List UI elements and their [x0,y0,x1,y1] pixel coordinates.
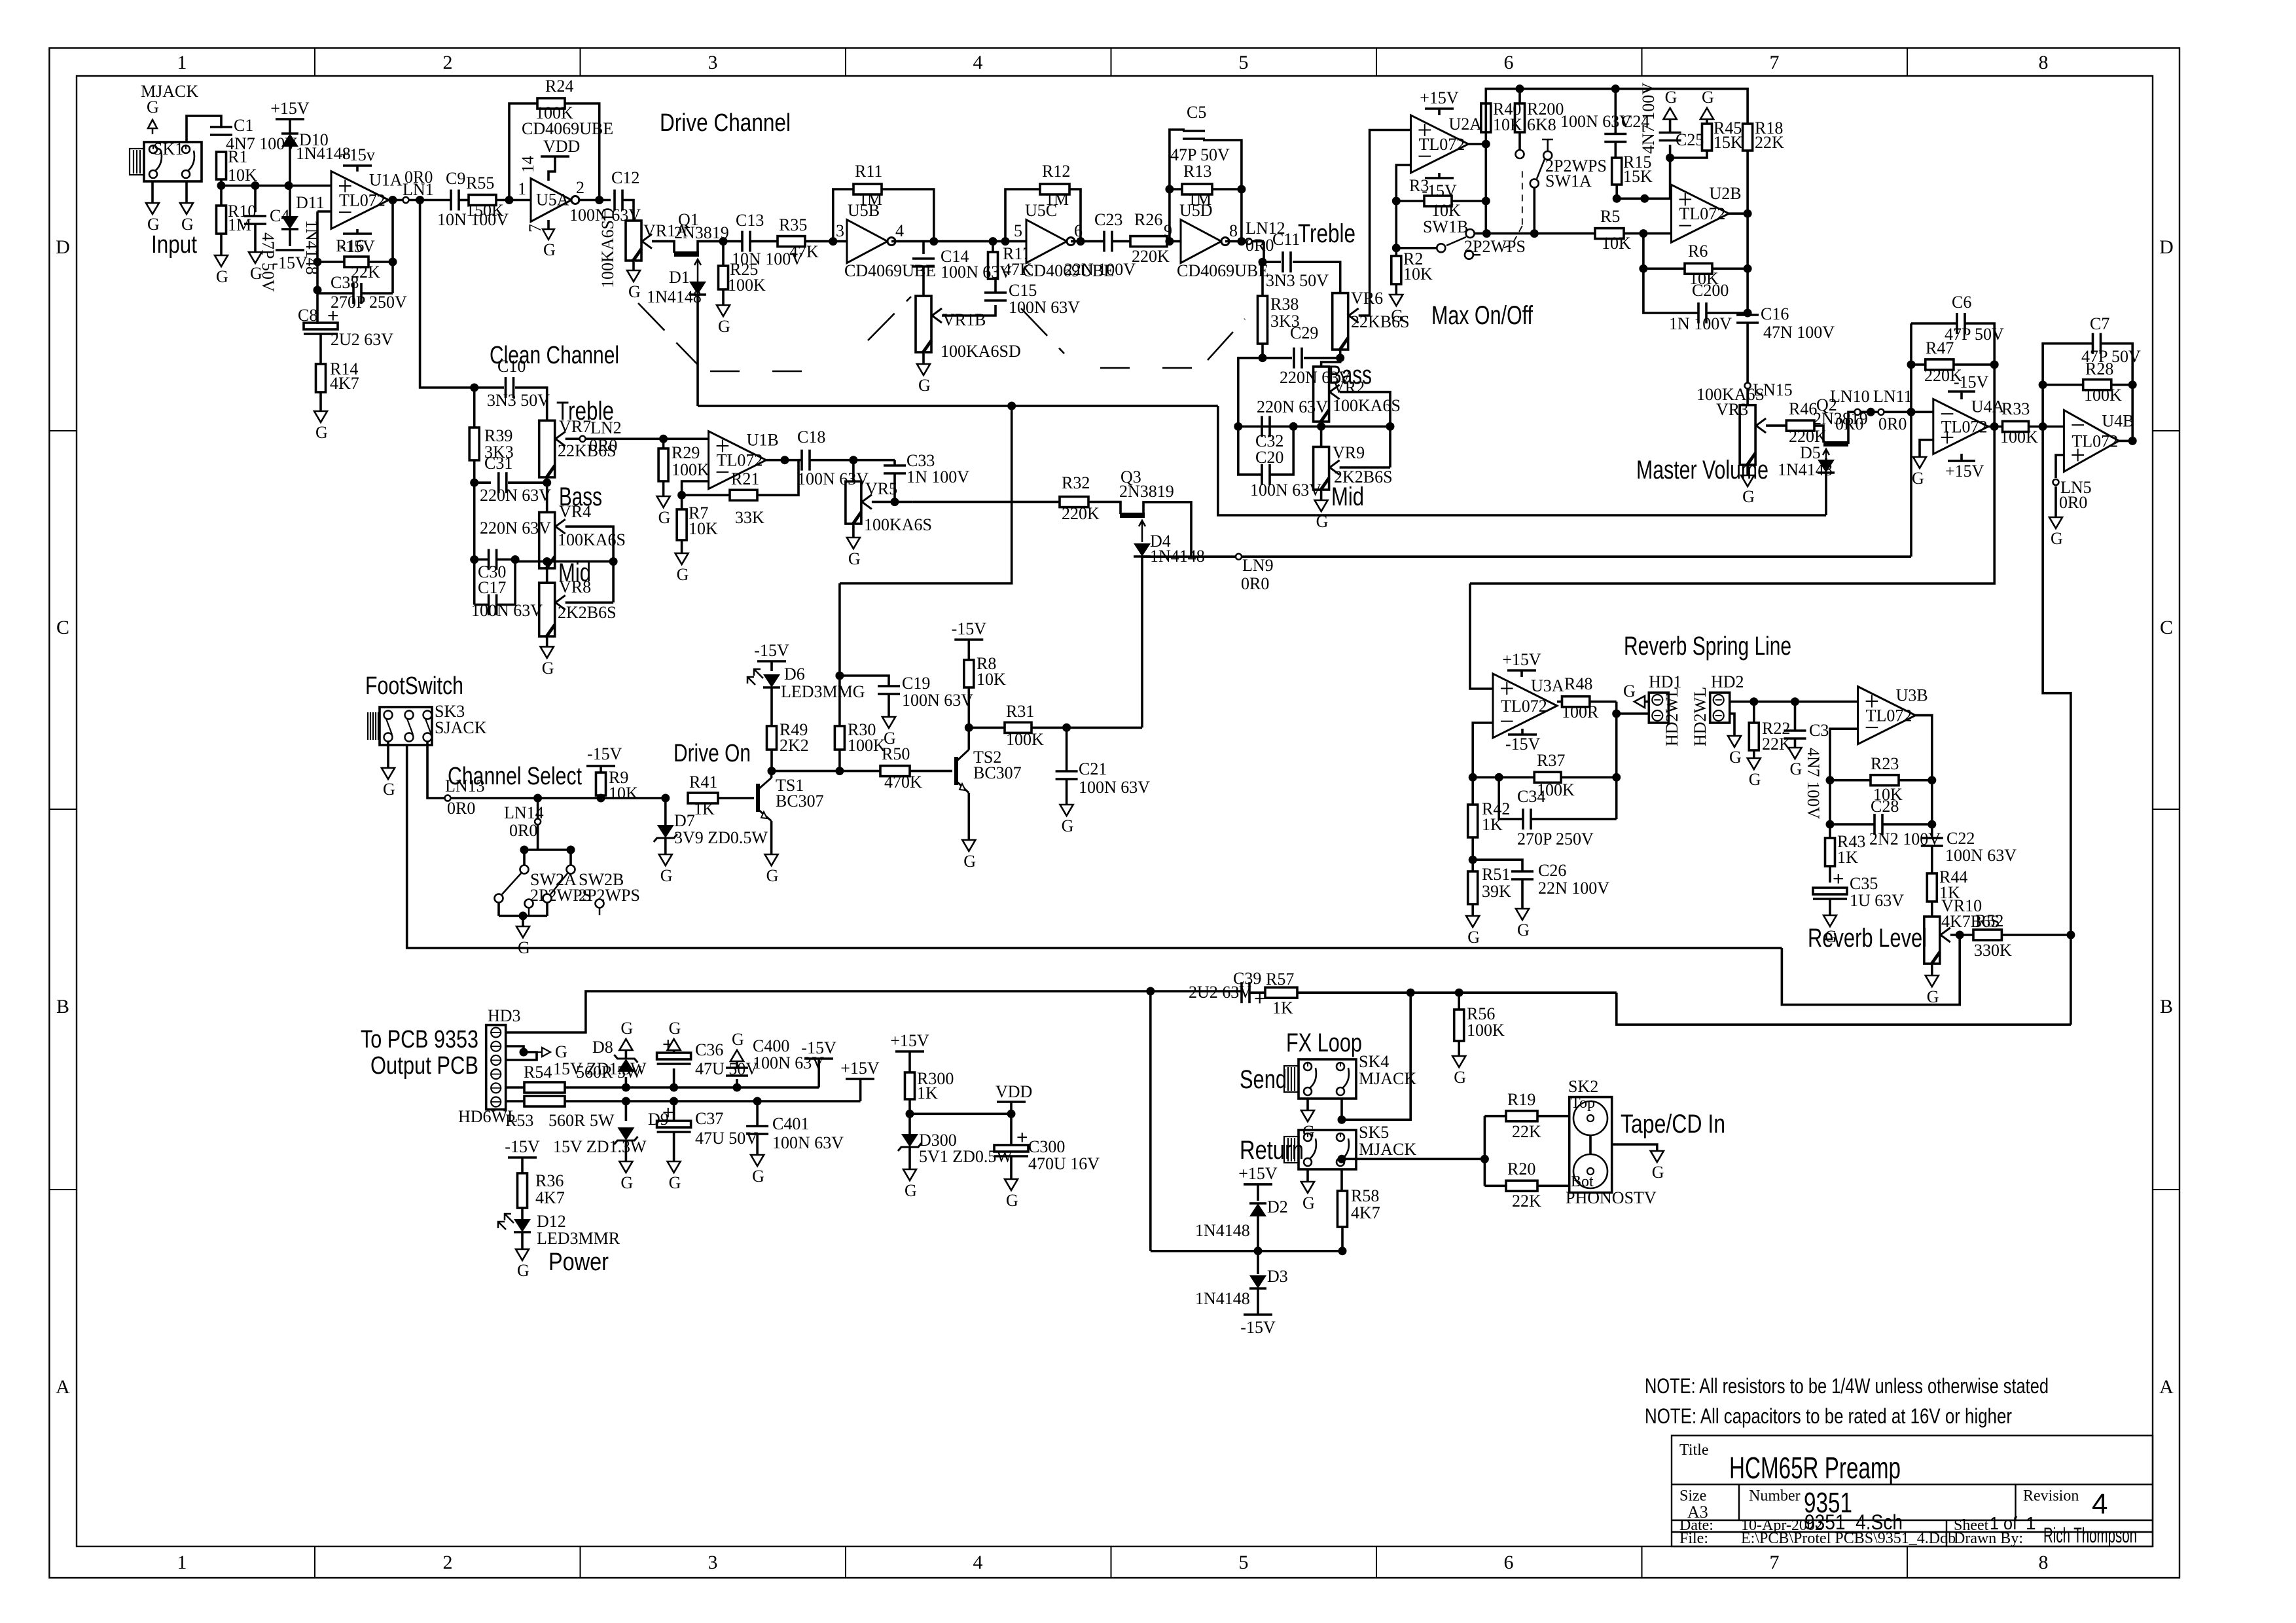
ground below VR8 [541,647,554,658]
row tick marks [49,430,77,431]
svg-text:D7: D7 [674,811,695,830]
svg-text:C28: C28 [1871,797,1899,816]
resistor R300 [905,1072,915,1099]
diode D4 [1134,543,1151,556]
capacitor C15 [984,291,1007,294]
ground below C19 [882,717,895,728]
resistor R6 [1685,263,1712,274]
svg-text:A: A [56,1376,70,1398]
diode D2 [1249,1203,1266,1216]
svg-text:100K: 100K [2084,386,2122,405]
node R28 right [2128,380,2137,389]
svg-text:220K: 220K [1132,247,1170,266]
svg-text:G: G [1454,1068,1466,1087]
wire R30 top to bus [838,583,841,726]
potentiometer VR9 [1320,426,1323,447]
svg-text:-15V: -15V [587,744,622,763]
svg-text:C22: C22 [1946,829,1975,848]
inverter U5C [1026,220,1067,263]
svg-text:U5A: U5A [536,191,569,210]
capacitor C31 [475,460,491,483]
svg-text:10K: 10K [977,670,1006,689]
column tick marks [314,48,315,76]
svg-text:3N3 50V: 3N3 50V [487,391,550,410]
capacitor C7 [2043,344,2092,427]
node SW2B top [567,846,575,854]
svg-text:-15V: -15V [952,619,987,638]
resistor R55 [459,199,469,202]
ground below SK3 [387,741,389,768]
svg-text:1K: 1K [694,799,715,818]
node R42 top [1469,773,1477,782]
svg-text:U5D: U5D [1179,201,1213,220]
svg-text:To PCB 9353: To PCB 9353 [361,1026,478,1053]
svg-text:0R0: 0R0 [447,799,475,818]
svg-text:C38: C38 [331,273,359,292]
wire SW1A pole down to R5 row [1534,187,1536,234]
potentiometer VR2 [1321,358,1340,367]
ground below C21 [1060,805,1073,816]
svg-text:R26: R26 [1134,210,1162,229]
svg-text:U3B: U3B [1896,686,1928,705]
+15V [1507,669,1536,672]
node R51 top [1469,856,1477,864]
svg-text:220N 63V: 220N 63V [480,519,551,538]
svg-text:1K: 1K [1272,998,1293,1017]
svg-text:100N 63V: 100N 63V [772,1133,844,1152]
wire R55 to U5A [496,199,531,202]
R31 row [969,727,1005,729]
capacitor C35 electrolytic [1813,888,1847,894]
wire caps to mid bus [515,560,613,563]
node C31 left [470,479,478,487]
LN10/LN11 row continues to U4A [1911,410,1933,413]
svg-text:470U 16V: 470U 16V [1028,1154,1100,1173]
capacitor C28 [1830,823,1874,826]
node LN14 branch [533,794,542,803]
potentiometer VR3 [1740,405,1755,465]
vertical from U2A output to R5 row [1485,144,1488,234]
resistor R36 [518,1173,528,1208]
svg-text:G: G [2051,529,2063,548]
svg-text:G: G [147,98,159,117]
svg-text:15V ZD1.3W: 15V ZD1.3W [553,1137,647,1156]
svg-text:+15V: +15V [1420,88,1459,107]
potentiometer VR1A [626,221,641,261]
wire VR3 wiper to R46 [1766,424,1786,427]
svg-text:G: G [1702,88,1714,107]
ground below SK4 [1301,1110,1314,1122]
return jack tip wire [1340,1169,1343,1191]
dashed link SW1A-SW1B [1522,171,1523,226]
wire SK1 tip to C1 [187,116,221,142]
svg-text:0R0: 0R0 [1241,574,1269,593]
ground below C4 [249,252,262,263]
node junction D10/D11 [285,181,293,190]
U4B summing bus down to R52 and FX [2043,427,2071,1025]
svg-text:C21: C21 [1079,759,1107,778]
svg-text:R29: R29 [672,443,700,462]
resistor R41 [688,793,718,803]
node R6 left [1639,264,1647,273]
+15V [1425,107,1454,110]
svg-text:330K: 330K [1974,941,2012,960]
svg-text:C35: C35 [1850,874,1878,893]
U3A inverting wire [1473,723,1493,805]
capacitor C11 [1282,251,1284,272]
svg-text:MJACK: MJACK [1359,1069,1416,1088]
node input junction R1/R10 [217,181,226,190]
capacitor C12 [613,190,616,211]
capacitor C17 [475,604,488,606]
svg-text:1N4148: 1N4148 [1195,1221,1250,1240]
ground above R45 [1706,119,1708,124]
resistor R56 [1458,993,1460,1010]
node U5C output [1077,237,1085,246]
ground below R29 [657,496,670,507]
feedback riser R13 and C5 [1170,130,1185,242]
node R200 top [1516,84,1524,93]
svg-text:R51: R51 [1482,865,1510,884]
U2A output node [1469,143,1486,145]
wire R48 to riser [1590,701,1617,703]
svg-text:C13: C13 [736,211,764,230]
svg-text:D8: D8 [592,1038,613,1057]
svg-text:Send: Send [1240,1065,1287,1094]
resistor R54 [524,1082,565,1093]
send jack tip wire to riser [1342,993,1410,1120]
op-amp U1A [331,172,389,229]
wire VR9 wiper to right bus [1340,466,1390,469]
svg-text:C: C [56,617,69,638]
svg-text:LED3MMG: LED3MMG [781,682,865,701]
node LN10/LN11 [1867,408,1875,416]
svg-text:47U 50V: 47U 50V [695,1129,758,1148]
wire TS1 base row [718,797,754,799]
svg-text:R55: R55 [466,173,494,192]
svg-text:1K: 1K [917,1084,938,1103]
svg-text:1N4148: 1N4148 [1778,460,1833,479]
svg-text:15K: 15K [1623,167,1653,186]
svg-text:BC307: BC307 [973,763,1022,782]
svg-text:10K: 10K [1602,234,1631,253]
svg-text:C5: C5 [1187,103,1206,122]
svg-text:-15V: -15V [272,253,308,272]
+15v [343,164,372,167]
node C33/VR5 wiper [891,498,899,506]
potentiometer VR8 [546,562,548,583]
svg-text:TL072: TL072 [339,191,386,210]
wire D5 to Mid bus [1825,473,1827,515]
wire R26 to U5D [1167,240,1181,243]
connector HD2 [1710,693,1730,723]
transistor Q3 2N3819 [1088,502,1121,514]
op-amp U2B [1672,185,1729,242]
U1B inverting path [682,481,730,495]
resistor R45 [1702,124,1712,151]
svg-text:22N 100V: 22N 100V [1064,260,1136,279]
wire VR10 wiper to R52 [1950,934,1973,936]
svg-text:1U 63V: 1U 63V [1850,891,1904,910]
svg-text:U1B: U1B [747,431,779,450]
svg-text:2U2 63V: 2U2 63V [331,330,393,349]
switch SW1A [1518,132,1521,150]
svg-text:4K7: 4K7 [535,1188,565,1207]
resistor R19 [1484,1115,1506,1118]
svg-text:G: G [1912,469,1924,488]
ground below VR10 [1931,965,1933,976]
wire C10 to VR7 [515,388,547,420]
HD3 pin5 wire row1 [505,1086,524,1089]
svg-text:C25: C25 [1676,130,1704,149]
ground flag above SK1 [152,120,154,134]
node C28 right [1928,820,1936,829]
svg-text:U2A: U2A [1449,115,1482,134]
U1B output [766,459,802,462]
ground below VR1B [917,364,930,375]
node send riser [1407,989,1415,997]
node R2 top [1392,244,1401,252]
svg-text:FX Loop: FX Loop [1286,1029,1362,1057]
svg-text:TL072: TL072 [1679,204,1726,223]
U4B plus input LN5 [2056,455,2064,478]
svg-text:R50: R50 [882,744,910,763]
wire C11 to VR6 [1293,262,1340,293]
svg-text:C29: C29 [1290,323,1318,342]
R5 row wire [1475,232,1595,235]
svg-text:4: 4 [973,1552,983,1573]
svg-text:33K: 33K [735,508,764,527]
svg-text:100R: 100R [1562,702,1599,721]
svg-text:+: + [1254,988,1266,1010]
node R16 left [314,258,322,266]
ground below R22 [1748,758,1761,769]
node VR10 wiper [1956,931,1964,939]
svg-text:TL072: TL072 [1866,706,1912,725]
svg-text:100N 63V: 100N 63V [1079,778,1150,797]
svg-text:Mid: Mid [1331,483,1364,511]
svg-text:1K: 1K [1837,848,1858,867]
power +15V end of row2 [859,1079,862,1101]
resistor R14 [316,364,326,392]
ground SK2 [1651,1151,1664,1162]
R300/D300 node [908,1099,911,1134]
node U2B inverting [1639,229,1647,238]
svg-text:Master Volume: Master Volume [1636,456,1768,484]
node U4B output [2128,437,2137,445]
node R47 right [1990,360,1999,369]
ground below C300 [1005,1179,1018,1190]
C32/C20 row [1238,426,1390,428]
svg-text:-15V: -15V [1954,373,1989,392]
node C34 left [1495,773,1503,782]
svg-text:150K: 150K [466,201,504,220]
svg-text:G: G [1517,921,1530,939]
resistor R12 [1040,184,1069,194]
svg-text:R35: R35 [779,215,807,234]
svg-text:SK2: SK2 [1568,1077,1598,1096]
node C30 left [470,555,478,564]
wire Q2 drain up to LN10/LN11 row [1848,412,1911,444]
node LN1 junction [416,196,424,204]
svg-text:Rich Thompson: Rich Thompson [2043,1523,2137,1547]
svg-text:100K: 100K [2000,428,2038,447]
svg-text:R16: R16 [336,236,364,255]
svg-text:SK5: SK5 [1359,1123,1389,1142]
svg-text:R52: R52 [1975,911,2003,930]
potentiometer VR4 [546,483,548,512]
resistor R200 [1518,89,1521,103]
svg-text:R20: R20 [1507,1159,1535,1178]
resistor R18 [1743,124,1753,151]
R37 row [1473,776,1534,779]
feedback riser to R37 row [1615,702,1618,819]
dashed drive/clean select line V1 [638,303,698,365]
svg-text:G: G [1302,1194,1315,1213]
node R39 top [470,384,478,392]
svg-text:R54: R54 [524,1063,552,1082]
FX bus riser down to mute row [1149,991,1152,1251]
node TS1 collector [768,767,776,775]
svg-text:VR7: VR7 [559,417,591,436]
ground below SK3 [382,768,395,779]
svg-text:Treble: Treble [1298,219,1355,248]
TS1 emitter ground [770,821,773,854]
U3A output to R48 [1557,701,1562,703]
wire Q1 drain to node3 wire [698,242,723,254]
svg-text:0R0: 0R0 [589,436,617,455]
capacitor C16 [1746,313,1749,314]
svg-text:C26: C26 [1538,861,1566,880]
wire VR2 wiper to right bus [1340,392,1390,467]
svg-text:1N4148: 1N4148 [1195,1289,1250,1308]
svg-text:U2B: U2B [1710,184,1742,203]
svg-text:C23: C23 [1094,210,1122,229]
U4B output [2119,440,2132,443]
capacitor C21 [1066,727,1068,771]
node D9 [622,1097,630,1106]
switch SW2B [567,866,575,874]
ground below R14 [314,411,327,422]
wire C18 to VR5 node [810,459,895,462]
HD3 pin6 wire row2 [505,1100,524,1103]
capacitor C23 [1103,231,1105,252]
svg-text:+15V: +15V [270,99,310,118]
capacitor C34 [1499,777,1523,819]
wire W1 right end down to Mid bus [1218,406,1826,515]
svg-text:TL072: TL072 [1941,418,1988,437]
svg-text:C16: C16 [1761,304,1789,323]
reverb return riser [1782,935,1960,1005]
svg-text:E:\PCB\Protel PCBS\9351_4.Ddb: E:\PCB\Protel PCBS\9351_4.Ddb [1741,1530,1956,1547]
svg-text:G: G [620,1173,633,1192]
svg-text:Max On/Off: Max On/Off [1431,301,1534,330]
node U1B output [781,456,789,464]
svg-text:LN14: LN14 [504,803,544,822]
wire R15 bottom to U2B plus [1617,185,1671,198]
node U1A output [389,196,397,204]
svg-text:100N 63V: 100N 63V [1009,298,1080,317]
ground below TS1 [765,854,778,866]
ground below D300 [903,1169,916,1180]
ground below SK5 [1301,1182,1314,1193]
power -15V below U2A [1438,173,1441,178]
node junction C4 [251,181,260,190]
ground below VR1A [627,270,640,282]
capacitor C5 [1183,130,1205,132]
node C30 right [511,555,520,564]
node U4A output [1990,422,1999,431]
svg-text:4: 4 [895,221,904,240]
resistor R46 [1786,420,1814,431]
resistor R21 [730,490,757,500]
svg-text:D2: D2 [1267,1197,1288,1216]
resistor R38 [1261,262,1264,296]
diode D5 [1825,458,1827,460]
svg-text:2: 2 [443,52,453,73]
svg-text:1N4148: 1N4148 [647,287,702,306]
ground below VR3 [1741,475,1754,486]
wire to C32/C20 left bus [1238,358,1263,427]
resistor R51 [1468,871,1478,904]
svg-text:G: G [216,267,228,286]
+15V [1244,1183,1272,1186]
node C21 top [1062,723,1071,732]
svg-text:D3: D3 [1267,1267,1288,1286]
node C400 [733,1084,742,1092]
svg-text:G: G [315,423,328,442]
node U4A inverting [1907,408,1916,416]
node C401 [753,1097,762,1106]
resistor R58 [1338,1191,1348,1227]
svg-text:C300: C300 [1028,1137,1065,1156]
resistor R31 [1005,722,1031,733]
power -15V below U1A [356,229,359,234]
node VDD [1007,1110,1016,1118]
node C25 riser [1640,194,1649,203]
ground below VR5 [852,525,855,538]
svg-text:SW1A: SW1A [1545,172,1592,191]
svg-text:SW1B: SW1B [1423,217,1468,236]
svg-text:C39: C39 [1233,969,1261,988]
node C29 left [1259,354,1267,362]
resistor R44 [1931,846,1933,873]
ground below VR1B [922,354,925,364]
svg-text:Number: Number [1749,1487,1801,1504]
capacitor C20 [1238,426,1262,475]
svg-text:C8: C8 [298,306,317,325]
svg-text:R24: R24 [545,77,573,96]
diode D11 [289,186,291,217]
diode D3 [1257,1251,1259,1274]
svg-text:VR5: VR5 [865,479,897,498]
node U5B output [929,237,938,246]
node R7 top [677,491,686,500]
capacitor C26 [1473,860,1522,871]
node C31 right [543,479,551,487]
svg-text:+15V: +15V [890,1031,929,1050]
capacitor C3 [1794,702,1797,731]
svg-text:+15V: +15V [1238,1164,1278,1183]
svg-text:6: 6 [1504,1552,1514,1573]
potentiometer VR10 [1931,902,1933,917]
svg-text:10K: 10K [1403,264,1433,283]
node send tip [1338,1116,1346,1124]
op-amp U4A [1933,399,1988,454]
svg-text:C37: C37 [695,1109,723,1128]
wire VR7 wiper LN2 to U1B [565,437,709,440]
transistor Q2 2N3819 [1814,426,1823,443]
